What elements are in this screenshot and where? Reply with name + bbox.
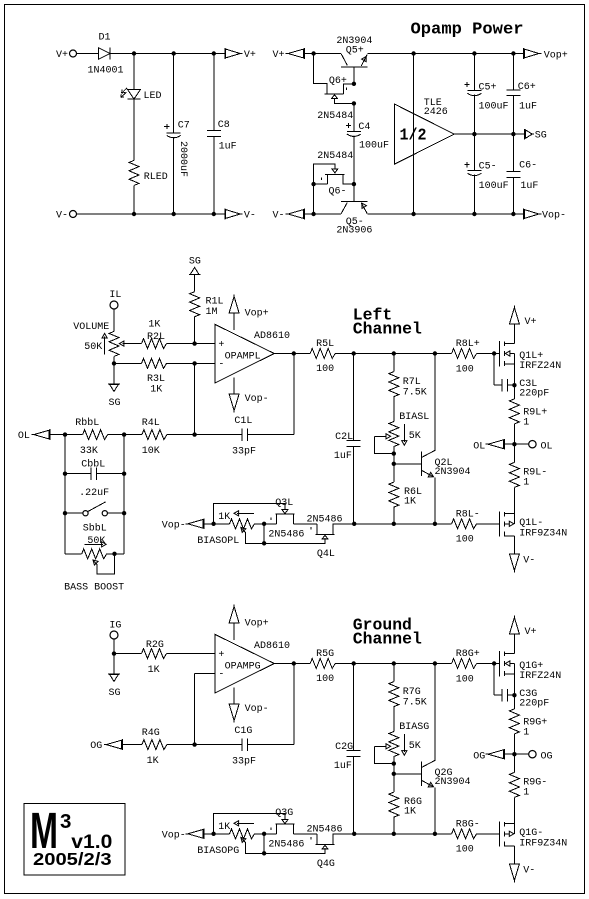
wire bass pot right lead bbox=[107, 553, 124, 555]
capacitor C6+ bbox=[506, 90, 520, 96]
wire output down to C1L bbox=[293, 354, 295, 435]
svg-text:OG: OG bbox=[541, 751, 553, 762]
wire R8G+ to gate bbox=[477, 663, 500, 665]
wire R3L to opamp bbox=[167, 362, 216, 364]
svg-text:100: 100 bbox=[316, 364, 334, 375]
wire Q5+ emitter to TLE rail bbox=[367, 53, 413, 55]
svg-text:Channel: Channel bbox=[353, 320, 422, 339]
wire R9G+ to output node bbox=[513, 734, 515, 754]
svg-text:OG: OG bbox=[90, 741, 102, 752]
switch SbbL bbox=[65, 512, 83, 514]
wire R4G to node bbox=[167, 744, 195, 746]
junction Q2L emitter bbox=[433, 522, 437, 526]
op-amp U1 TLE2426 triangle bbox=[395, 104, 455, 164]
capacitor C5+ plus bbox=[464, 82, 469, 87]
transistor Q5+ 2N3904 bbox=[341, 54, 367, 68]
resistor R3L bbox=[142, 358, 167, 368]
junction R6G bottom bbox=[392, 832, 396, 836]
junction bass wiper bbox=[112, 552, 116, 556]
resistor R9L- bbox=[509, 462, 519, 487]
capacitor C2L bbox=[347, 441, 361, 447]
svg-text:2000uF: 2000uF bbox=[177, 141, 188, 177]
svg-text:BIASOPL: BIASOPL bbox=[197, 536, 239, 547]
wire Q1L+ source to R9L+ bbox=[513, 364, 515, 399]
wire V- in to Q5- bbox=[304, 213, 341, 215]
wire top rail section1 bbox=[110, 53, 225, 55]
junction SG rail C5+ bbox=[472, 132, 476, 136]
svg-text:IRF9Z34N: IRF9Z34N bbox=[519, 528, 567, 539]
svg-text:33K: 33K bbox=[80, 446, 98, 457]
svg-text:D1: D1 bbox=[99, 33, 111, 44]
junction Q2G base node bbox=[392, 772, 396, 776]
svg-text:CbbL: CbbL bbox=[81, 458, 105, 470]
wire R3L left bbox=[114, 362, 142, 364]
capacitor C5+ bbox=[467, 91, 481, 96]
wire base node to Q2L bbox=[394, 463, 422, 465]
junction bottom rail at C7 bbox=[172, 212, 176, 216]
svg-text:Q5+: Q5+ bbox=[346, 46, 364, 57]
capacitor C4 bbox=[347, 131, 361, 136]
svg-text:V+: V+ bbox=[525, 317, 537, 328]
junction V+ rail Q6+ branch bbox=[311, 51, 315, 55]
port arrow Vop+ out bbox=[524, 48, 542, 59]
capacitor C7 plus bbox=[164, 124, 169, 129]
wire OL arrow to node bbox=[504, 443, 514, 445]
svg-text:Vop-: Vop- bbox=[162, 521, 186, 532]
junction R1L plus input bbox=[192, 341, 196, 345]
capacitor C5- plus bbox=[464, 162, 469, 167]
jfet Q6- 2N5484 bbox=[314, 164, 335, 184]
svg-text:V-: V- bbox=[244, 211, 256, 222]
svg-text:C5+: C5+ bbox=[479, 83, 497, 94]
capacitor C3G bbox=[502, 689, 508, 701]
svg-text:5K: 5K bbox=[409, 741, 421, 752]
junction IG input bbox=[112, 651, 116, 655]
wire bass right vertical bbox=[123, 435, 125, 554]
logo box bbox=[24, 804, 125, 876]
svg-text:IRF9Z34N: IRF9Z34N bbox=[519, 838, 567, 849]
resistor R8G+ bbox=[452, 659, 477, 669]
svg-text:2N5486: 2N5486 bbox=[268, 840, 304, 851]
svg-text:C2L: C2L bbox=[335, 432, 353, 443]
svg-text:C4: C4 bbox=[358, 122, 370, 133]
wire C3G gate lead bbox=[493, 664, 495, 696]
svg-text:Q3L: Q3L bbox=[275, 498, 293, 509]
svg-text:C7: C7 bbox=[178, 121, 190, 132]
svg-text:IL: IL bbox=[109, 290, 121, 301]
wire C2L upper bbox=[353, 354, 355, 441]
wire LED column upper bbox=[133, 54, 135, 90]
junction opamp output bbox=[292, 351, 296, 355]
wire IG to SG arrow bbox=[113, 654, 115, 675]
junction minus input bbox=[192, 361, 196, 365]
wire node to OL terminal bbox=[514, 443, 528, 445]
junction C3G source bbox=[512, 693, 516, 697]
wire C3L right bbox=[507, 384, 514, 386]
jfet Q6+ 2N5484 bbox=[314, 54, 354, 95]
svg-text:R5L: R5L bbox=[316, 339, 334, 350]
junction bottom rail at C8 bbox=[212, 212, 216, 216]
transistor Q2L 2N3904 bbox=[420, 452, 422, 476]
junction wiper gate node bbox=[262, 851, 266, 855]
svg-text:2426: 2426 bbox=[424, 107, 448, 118]
junction C2L top bbox=[352, 351, 356, 355]
junction output node OL bbox=[512, 442, 516, 446]
junction top rail TLE bbox=[411, 51, 415, 55]
svg-text:100: 100 bbox=[456, 535, 474, 546]
svg-text:1uF: 1uF bbox=[334, 761, 352, 772]
svg-text:1K: 1K bbox=[148, 320, 160, 331]
svg-text:1uF: 1uF bbox=[334, 451, 352, 462]
bias pot wiper bbox=[386, 744, 391, 749]
junction Q6- left bbox=[311, 182, 315, 186]
wire minus to feedback bbox=[194, 673, 196, 744]
wire node to R9G- bbox=[513, 754, 515, 772]
svg-text:1K: 1K bbox=[147, 756, 159, 767]
junction bias pot bottom bbox=[392, 761, 396, 765]
svg-text:2N5484: 2N5484 bbox=[317, 151, 353, 162]
resistor R1L bbox=[190, 292, 200, 317]
wire pot to Q3L bbox=[255, 523, 277, 525]
junction SbbL right bbox=[122, 511, 126, 515]
svg-text:2N5486: 2N5486 bbox=[307, 825, 343, 836]
wire R2G to opamp bbox=[167, 653, 216, 655]
capacitor C3L bbox=[502, 379, 508, 391]
wire R2L to opamp bbox=[167, 343, 216, 345]
potentiometer BIASOPL 1K bbox=[230, 519, 255, 529]
svg-text:-: - bbox=[218, 360, 224, 371]
wire R5L to R8L+ bbox=[335, 353, 451, 355]
svg-text:100: 100 bbox=[316, 674, 334, 685]
label 2000uF bbox=[177, 141, 188, 177]
wire C3G left bbox=[494, 694, 502, 696]
junction biasop right bbox=[262, 832, 266, 836]
wire SG arrow to R1L bbox=[194, 275, 196, 292]
port arrow Vop- below opamp bbox=[233, 377, 235, 394]
wire top rail to caps bbox=[414, 53, 524, 55]
wire TLE supply vertical bbox=[413, 54, 415, 215]
wire C1G right lead bbox=[248, 744, 294, 746]
svg-text:2005/2/3: 2005/2/3 bbox=[33, 849, 112, 869]
wire R9L+ to output node bbox=[513, 424, 515, 444]
wire Q1G+ source to R9G+ bbox=[513, 674, 515, 709]
svg-text:V+: V+ bbox=[244, 50, 256, 61]
wire R6L lower bbox=[393, 507, 395, 524]
junction R7L top bbox=[392, 351, 396, 355]
wire R7G to pot bbox=[393, 707, 395, 732]
resistor R7L bbox=[389, 372, 399, 397]
svg-text:1/2: 1/2 bbox=[400, 126, 427, 145]
wire R7L to pot bbox=[393, 397, 395, 422]
biasop pot direction arrow bbox=[237, 822, 254, 824]
svg-text:R8L+: R8L+ bbox=[456, 339, 480, 350]
port arrow SG below IG bbox=[108, 674, 120, 681]
svg-text:AD8610: AD8610 bbox=[254, 641, 290, 652]
port arrow Vop- below opamp bbox=[233, 687, 235, 704]
transistor Q5- 2N3906 bbox=[341, 202, 367, 214]
svg-text:50K: 50K bbox=[84, 342, 102, 353]
junction wiper gate node bbox=[262, 541, 266, 545]
diode D1 bbox=[99, 48, 111, 60]
svg-text:Vop-: Vop- bbox=[245, 394, 269, 405]
wire bias rail to R8G- bbox=[354, 833, 451, 835]
svg-text:1K: 1K bbox=[148, 665, 160, 676]
svg-text:1uF: 1uF bbox=[219, 142, 237, 153]
wire R5G to R8G+ bbox=[335, 663, 451, 665]
terminal OL right bbox=[529, 441, 536, 448]
svg-text:+: + bbox=[218, 650, 224, 661]
wire CbbL left lead bbox=[65, 473, 91, 475]
wire OL to RbbL bbox=[65, 434, 83, 436]
junction top rail at C8 column bbox=[212, 51, 216, 55]
wire minus input to feedback bbox=[194, 363, 196, 434]
wire C5- to bottom rail bbox=[473, 175, 475, 214]
capacitor C1G bbox=[242, 738, 248, 750]
svg-text:Q4L: Q4L bbox=[317, 549, 335, 560]
capacitor C1L bbox=[242, 428, 248, 440]
junction Q6- right C4 bbox=[352, 182, 356, 186]
port arrow SG out bbox=[525, 129, 534, 139]
junction SG rail C6+ bbox=[511, 132, 515, 136]
svg-text:BASS BOOST: BASS BOOST bbox=[64, 582, 124, 593]
svg-text:V+: V+ bbox=[273, 50, 285, 61]
svg-text:R5G: R5G bbox=[316, 649, 334, 660]
wire R9L- to Q1L- source bbox=[513, 487, 515, 513]
op-amp OPAMPG AD8610 bbox=[215, 634, 274, 693]
terminal V- input bbox=[70, 211, 77, 218]
wire V+ rail to Q5+ bbox=[314, 53, 341, 55]
junction bottom rail C5- bbox=[472, 212, 476, 216]
junction bottom rail at RLED bbox=[132, 212, 136, 216]
junction CbbL right bbox=[122, 472, 126, 476]
svg-text:100uF: 100uF bbox=[479, 102, 509, 113]
wire Q1G- drain to V- bbox=[513, 846, 515, 864]
capacitor C2G bbox=[347, 751, 361, 757]
wire gate node vertical bbox=[263, 524, 265, 544]
svg-text:33pF: 33pF bbox=[232, 757, 256, 768]
svg-text:100uF: 100uF bbox=[359, 141, 389, 152]
svg-text:OL: OL bbox=[473, 441, 485, 452]
svg-text:10K: 10K bbox=[142, 446, 160, 457]
port arrow V- mosfet bbox=[509, 864, 520, 883]
wire C1L left lead bbox=[195, 434, 243, 436]
resistor R6L bbox=[389, 482, 399, 507]
svg-text:C1L: C1L bbox=[234, 416, 252, 427]
svg-text:1K: 1K bbox=[218, 822, 230, 833]
wire RLED to bottom rail bbox=[133, 185, 135, 214]
potentiometer bass 50K bbox=[82, 549, 107, 559]
jfet Q3G 2N5486 bbox=[275, 824, 294, 834]
svg-text:IRFZ24N: IRFZ24N bbox=[519, 361, 561, 372]
bias pot 5K arrow bbox=[403, 734, 405, 752]
junction bottom rail TLE bbox=[411, 212, 415, 216]
wire pot to base node bbox=[393, 454, 395, 464]
volume wiper arrow bbox=[123, 343, 132, 345]
terminal OG right bbox=[529, 751, 536, 758]
wire C1L right lead bbox=[248, 434, 294, 436]
svg-text:100: 100 bbox=[456, 845, 474, 856]
svg-text:1uF: 1uF bbox=[519, 102, 537, 113]
wire node to R9L- bbox=[513, 444, 515, 462]
wire volume to SG arrow bbox=[113, 363, 115, 384]
svg-text:3: 3 bbox=[60, 810, 71, 833]
resistor R8G- bbox=[452, 829, 477, 839]
resistor R9G- bbox=[509, 772, 519, 797]
wire V+ in to junction bbox=[304, 53, 313, 55]
wire Q3G gate return bbox=[214, 814, 285, 834]
svg-text:Vop+: Vop+ bbox=[544, 51, 568, 62]
potentiometer VOLUME 50K bbox=[109, 331, 119, 356]
svg-text:2N3904: 2N3904 bbox=[435, 777, 471, 788]
svg-text:Opamp Power: Opamp Power bbox=[411, 21, 524, 40]
resistor RbbL bbox=[83, 430, 108, 440]
wire wiper to R2L bbox=[132, 343, 142, 345]
junction bias pot bottom bbox=[392, 451, 396, 455]
svg-text:Vop+: Vop+ bbox=[245, 619, 269, 630]
resistor R5G bbox=[310, 659, 335, 669]
svg-text:BIASL: BIASL bbox=[399, 412, 429, 423]
svg-text:C6-: C6- bbox=[519, 161, 537, 172]
port arrow V- out bbox=[225, 209, 243, 220]
resistor R2G bbox=[142, 649, 167, 659]
svg-text:C6+: C6+ bbox=[518, 82, 536, 93]
svg-text:1: 1 bbox=[523, 417, 529, 428]
svg-text:Q6-: Q6- bbox=[329, 187, 347, 198]
biasop pot direction arrow bbox=[237, 512, 254, 514]
junction volume bottom bbox=[112, 361, 116, 365]
resistor R9G+ bbox=[509, 709, 519, 734]
wire R4G left bbox=[123, 744, 142, 746]
wire RbbL to junction bbox=[108, 434, 125, 436]
junction bias string left bbox=[211, 832, 215, 836]
wire R7G upper bbox=[393, 664, 395, 682]
svg-text:1: 1 bbox=[523, 787, 529, 798]
port arrow V- mosfet bbox=[509, 554, 520, 573]
wire R6G upper bbox=[393, 774, 395, 792]
resistor R8L+ bbox=[452, 349, 477, 359]
wire V+ to Q1L+ drain bbox=[513, 324, 515, 343]
svg-text:Channel: Channel bbox=[353, 630, 422, 649]
port arrow Vop+ above opamp bbox=[233, 623, 235, 640]
wire V+ to Q1G+ drain bbox=[513, 634, 515, 653]
junction Q5+ base Q6+ source bbox=[352, 82, 356, 86]
svg-text:C1G: C1G bbox=[234, 726, 252, 737]
wire R6G lower bbox=[393, 817, 395, 834]
junction CbbL left bbox=[63, 472, 67, 476]
svg-text:AD8610: AD8610 bbox=[254, 331, 290, 342]
transistor Q1L- IRF9Z34N bbox=[498, 512, 500, 537]
svg-text:V+: V+ bbox=[56, 50, 68, 61]
svg-text:100: 100 bbox=[456, 675, 474, 686]
wire V+ terminal to D1 bbox=[77, 53, 99, 55]
svg-text:Vop-: Vop- bbox=[542, 211, 566, 222]
wire OG arrow to node bbox=[504, 753, 514, 755]
svg-text:Vop+: Vop+ bbox=[245, 309, 269, 320]
terminal V+ input bbox=[70, 50, 77, 57]
wire R4L left bbox=[124, 434, 142, 436]
wire Q6- left to bottom rail bbox=[313, 184, 315, 214]
wire gate node vertical bbox=[263, 834, 265, 854]
svg-text:R8L-: R8L- bbox=[456, 510, 480, 521]
svg-text:220pF: 220pF bbox=[519, 389, 549, 400]
wire IG to R2G bbox=[114, 653, 142, 655]
wire Vop- to pot bbox=[204, 833, 229, 835]
svg-text:7.5K: 7.5K bbox=[403, 697, 427, 708]
wire IG down bbox=[113, 639, 115, 654]
wire bias rail to R8L- bbox=[354, 523, 451, 525]
junction C3L source bbox=[512, 383, 516, 387]
wire C1G left lead bbox=[195, 744, 243, 746]
wire C8 to bottom rail bbox=[213, 136, 215, 214]
capacitor C6- wire upper bbox=[512, 134, 514, 171]
svg-text:1M: 1M bbox=[206, 307, 218, 318]
svg-text:BIASG: BIASG bbox=[399, 722, 429, 733]
svg-text:100uF: 100uF bbox=[479, 181, 509, 192]
svg-text:Vop-: Vop- bbox=[245, 704, 269, 715]
svg-text:V-: V- bbox=[273, 211, 285, 222]
svg-text:V+: V+ bbox=[525, 627, 537, 638]
wire LED to RLED bbox=[133, 99, 135, 160]
wire R8L+ to gate bbox=[477, 353, 500, 355]
svg-text:OL: OL bbox=[541, 441, 553, 452]
svg-text:BIASOPG: BIASOPG bbox=[197, 846, 239, 857]
potentiometer BIASOPG 1K bbox=[230, 829, 255, 839]
svg-text:.22uF: .22uF bbox=[79, 488, 109, 499]
svg-text:2N5486: 2N5486 bbox=[268, 530, 304, 541]
capacitor C6- bbox=[506, 171, 520, 177]
junction bias rail C2L bbox=[352, 522, 356, 526]
junction top rail at C7 column bbox=[172, 51, 176, 55]
transistor Q1G+ IRFZ24N bbox=[498, 651, 500, 676]
bias pot 5K arrow bbox=[403, 424, 405, 442]
capacitor C6+ wire upper bbox=[512, 54, 514, 90]
potentiometer BIASG 5K bbox=[389, 732, 399, 757]
svg-text:RbbL: RbbL bbox=[75, 417, 99, 429]
biasop pot wiper bbox=[239, 835, 246, 842]
svg-text:R8G-: R8G- bbox=[456, 820, 480, 831]
junction Q2G emitter bbox=[433, 832, 437, 836]
port arrow Vop- out bbox=[524, 209, 542, 220]
wire Q1L- drain to V- bbox=[513, 536, 515, 554]
svg-text:1uF: 1uF bbox=[520, 181, 538, 192]
svg-text:RLED: RLED bbox=[144, 172, 168, 183]
svg-text:LED: LED bbox=[144, 91, 162, 102]
svg-text:V-: V- bbox=[56, 211, 68, 222]
resistor R2L bbox=[142, 339, 167, 349]
resistor R5L bbox=[310, 349, 335, 359]
wire pot to Q3G bbox=[255, 833, 277, 835]
svg-text:100: 100 bbox=[456, 365, 474, 376]
svg-text:50K: 50K bbox=[87, 536, 105, 547]
transistor Q2G 2N3904 bbox=[420, 762, 422, 786]
port arrow V+ out bbox=[225, 48, 243, 59]
port arrow SG below volume bbox=[108, 384, 120, 391]
resistor R4G bbox=[142, 740, 167, 750]
junction bias rail C2G bbox=[352, 832, 356, 836]
wire bottom rail section1 bbox=[77, 213, 225, 215]
wire opamp output bbox=[274, 353, 294, 355]
svg-text:SG: SG bbox=[109, 398, 121, 409]
svg-text:V-: V- bbox=[523, 866, 535, 877]
wire C5+ to SG rail bbox=[473, 95, 475, 134]
junction bottom rail C6- bbox=[511, 212, 515, 216]
LED diode bbox=[128, 89, 141, 99]
wire base node to Q2G bbox=[394, 773, 422, 775]
wire R8G- to gate bbox=[477, 833, 500, 835]
svg-text:-: - bbox=[218, 670, 224, 681]
port arrow V+ mosfet bbox=[509, 306, 520, 325]
svg-text:2N5484: 2N5484 bbox=[317, 111, 353, 122]
